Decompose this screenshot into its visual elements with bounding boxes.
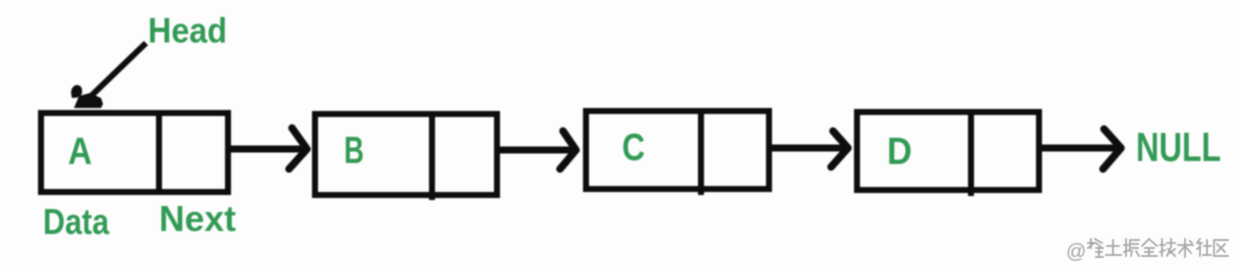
watermark @ sign xyxy=(1066,241,1086,263)
wire arrow D to NULL xyxy=(1042,145,1117,152)
char ji xyxy=(1160,239,1175,256)
node D divider xyxy=(968,111,974,196)
svg-text:NULL: NULL xyxy=(1136,124,1221,170)
char xi xyxy=(1088,239,1103,257)
head arrowhead smudge xyxy=(71,85,82,98)
arrowhead A to B xyxy=(289,128,307,169)
svg-text:C: C xyxy=(622,127,645,169)
svg-text:Next: Next xyxy=(159,198,236,239)
arrowhead B to C xyxy=(560,131,576,169)
head arrow wire xyxy=(90,43,146,97)
wire arrow C to D xyxy=(772,145,844,152)
svg-text:B: B xyxy=(344,130,364,172)
node B divider xyxy=(429,113,435,200)
watermark CJK glyphs (approximate strokes) xyxy=(1088,239,1228,257)
char qu xyxy=(1214,240,1228,256)
wire arrow A to B xyxy=(231,146,303,153)
head arrowhead xyxy=(74,93,103,108)
char shu xyxy=(1178,239,1193,257)
arrowhead D to NULL xyxy=(1103,129,1121,169)
char tu xyxy=(1106,240,1121,255)
node C box xyxy=(586,111,769,189)
char jue xyxy=(1124,239,1139,256)
svg-text:Data: Data xyxy=(43,201,110,242)
node D box xyxy=(857,112,1039,190)
char jin xyxy=(1142,239,1157,256)
node A box xyxy=(41,113,228,192)
arrowhead C to D xyxy=(831,131,848,167)
node C divider xyxy=(698,110,704,195)
node B box xyxy=(315,114,497,195)
svg-text:@: @ xyxy=(1066,241,1086,263)
svg-text:D: D xyxy=(887,131,912,173)
svg-text:Head: Head xyxy=(148,12,227,51)
node A divider xyxy=(156,112,162,194)
wire arrow B to C xyxy=(500,147,572,154)
svg-text:A: A xyxy=(68,131,92,173)
char she xyxy=(1197,239,1211,256)
